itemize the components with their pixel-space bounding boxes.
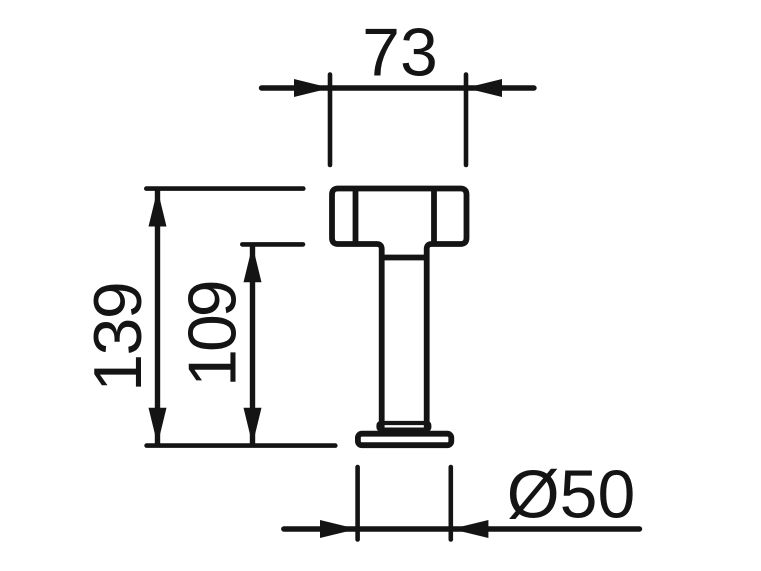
base flare band (379, 423, 430, 430)
dim 139: top extension line (146, 186, 303, 191)
head inner line right (431, 189, 437, 244)
fixture head and stem outline (332, 189, 467, 428)
arrow 139 up (149, 190, 167, 227)
arrow 50 right (points left) (451, 520, 488, 538)
arrow 73 left (294, 79, 331, 97)
dim 109: top extension line (242, 242, 303, 247)
dim 139: dimension line (155, 190, 160, 444)
arrow 50 left (points right) (320, 520, 357, 538)
shared bottom extension line (147, 443, 336, 448)
svg-text:109: 109 (175, 282, 251, 387)
dim 73: left extension line (328, 75, 333, 166)
dim 50: left extension line (355, 467, 360, 540)
dim 73: right extension line (464, 75, 469, 166)
stem collar line (383, 255, 426, 261)
dim 109: dimension line (250, 246, 255, 444)
arrow 139 down (149, 408, 167, 445)
svg-text:73: 73 (362, 15, 438, 91)
svg-text:Ø50: Ø50 (507, 457, 636, 533)
arrow 109 down (244, 408, 262, 445)
dim 73: dimension line (262, 85, 535, 90)
dim 50: right extension line (448, 467, 453, 540)
dim 50: dimension line with tails (284, 526, 640, 531)
head inner line left (353, 189, 359, 244)
svg-text:139: 139 (80, 283, 156, 392)
base plate (358, 434, 451, 446)
arrow 109 up (244, 245, 262, 282)
arrow 73 right (466, 79, 503, 97)
